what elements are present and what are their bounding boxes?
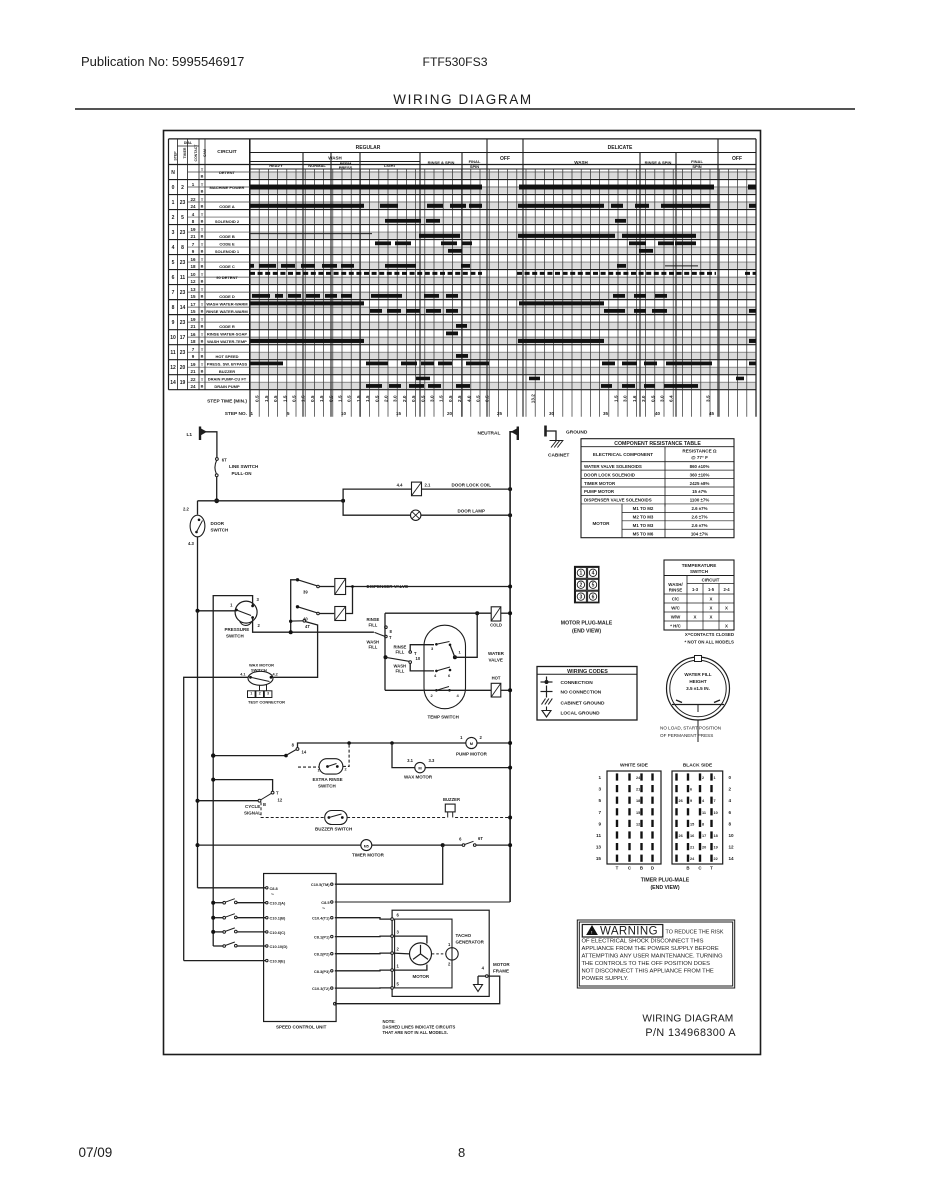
svg-text:8: 8 [292,743,295,748]
svg-text:0: 0 [729,775,732,780]
svg-text:DASHED LINES INDICATE CIRCUITS: DASHED LINES INDICATE CIRCUITS [383,1025,456,1030]
svg-text:19: 19 [190,317,196,322]
svg-text:DIAL: DIAL [184,141,193,145]
svg-text:VALVE: VALVE [489,658,503,663]
svg-text:14: 14 [729,856,735,861]
svg-text:(END VIEW): (END VIEW) [650,885,679,891]
svg-text:B: B [201,325,204,329]
svg-text:1.5: 1.5 [614,395,619,402]
svg-text:24: 24 [690,857,695,861]
svg-text:20: 20 [180,365,186,371]
svg-text:22: 22 [190,197,196,202]
svg-text:WAX MOTOR: WAX MOTOR [404,775,433,780]
svg-text:T: T [201,318,204,322]
svg-text:3: 3 [580,595,583,601]
svg-text:WHITE SIDE: WHITE SIDE [620,763,649,769]
svg-text:X=CONTACTS CLOSED: X=CONTACTS CLOSED [685,632,734,637]
svg-text:WASH/: WASH/ [668,582,683,587]
svg-text:17: 17 [190,302,196,307]
svg-text:23: 23 [180,290,186,296]
svg-text:PUMP MOTOR: PUMP MOTOR [584,489,615,494]
svg-text:T: T [201,198,204,202]
svg-text:T: T [616,866,619,871]
svg-text:TIMER: TIMER [183,147,187,158]
svg-text:16: 16 [190,332,196,337]
svg-text:C10.9(E): C10.9(E) [270,959,286,964]
svg-text:NORMAL: NORMAL [308,163,326,168]
svg-text:CONNECTION: CONNECTION [561,680,594,686]
svg-text:L1: L1 [187,432,193,438]
svg-text:15: 15 [636,811,640,815]
svg-text:4: 4 [172,245,175,251]
svg-text:0.5: 0.5 [273,395,278,402]
svg-text:3.5: 3.5 [706,395,711,402]
svg-text:TIMER MOTOR: TIMER MOTOR [584,481,616,486]
svg-text:T: T [276,791,279,796]
svg-text:07/09: 07/09 [79,1145,113,1160]
svg-text:WIRING CODES: WIRING CODES [567,669,608,675]
svg-text:BUZZER: BUZZER [443,797,460,802]
svg-text:WATER FILL: WATER FILL [684,672,711,677]
svg-text:39: 39 [303,590,308,595]
svg-text:OF ELECTRICAL SHOCK DISCONNECT: OF ELECTRICAL SHOCK DISCONNECT THIS [582,939,704,945]
svg-text:16: 16 [190,257,196,262]
svg-text:4T: 4T [305,624,310,629]
svg-text:W/W: W/W [671,615,681,620]
svg-text:23: 23 [180,350,186,356]
svg-text:15: 15 [190,294,196,299]
svg-text:B: B [263,802,266,807]
svg-text:1: 1 [250,692,252,696]
svg-text:7: 7 [172,290,175,296]
svg-text:REGULAR: REGULAR [356,145,381,151]
svg-text:1.5: 1.5 [264,395,269,402]
svg-text:P/N 134968300 A: P/N 134968300 A [645,1027,736,1039]
svg-text:14: 14 [170,380,176,386]
svg-text:DETENT: DETENT [219,170,236,175]
svg-text:M5: M5 [364,844,369,848]
svg-text:4: 4 [457,693,460,698]
svg-text:1: 1 [192,182,195,187]
svg-text:14: 14 [180,305,186,311]
svg-text:7: 7 [714,799,716,803]
svg-text:POWER SUPPLY.: POWER SUPPLY. [582,976,629,982]
svg-text:B: B [201,370,204,374]
svg-text:FILL: FILL [396,669,405,674]
svg-text:2.6 ±7%: 2.6 ±7% [691,515,707,520]
svg-text:(END VIEW): (END VIEW) [572,629,601,635]
svg-text:12: 12 [170,365,176,371]
svg-text:19: 19 [180,380,186,386]
svg-text:RINSE: RINSE [669,588,682,593]
svg-text:24: 24 [190,204,196,209]
svg-text:11: 11 [596,833,601,838]
svg-text:2: 2 [172,215,175,221]
svg-text:10: 10 [729,833,735,838]
svg-text:C: C [628,866,632,871]
svg-text:9: 9 [598,821,601,826]
svg-text:BLACK SIDE: BLACK SIDE [683,763,713,769]
svg-text:C10.4(T1): C10.4(T1) [312,916,330,921]
svg-text:2425 ±8%: 2425 ±8% [690,481,710,486]
svg-text:13: 13 [596,845,602,850]
svg-text:SWITCH: SWITCH [226,634,244,639]
svg-text:19: 19 [190,362,196,367]
svg-text:3: 3 [172,230,175,236]
svg-text:6: 6 [690,788,692,792]
svg-text:7: 7 [598,810,601,815]
svg-text:2.5: 2.5 [457,395,462,402]
svg-text:CODE R: CODE R [219,324,235,329]
svg-text:@ 77° F: @ 77° F [691,455,708,460]
svg-text:BUZZER: BUZZER [219,369,235,374]
svg-text:0.5: 0.5 [292,395,297,402]
svg-text:SPEED CONTROL UNIT: SPEED CONTROL UNIT [276,1025,327,1030]
svg-text:PRESSURE: PRESSURE [225,627,250,632]
svg-text:5: 5 [592,583,595,589]
svg-text:WASH WATER-TEMP: WASH WATER-TEMP [207,339,247,344]
svg-text:4.4: 4.4 [397,483,403,488]
svg-text:1: 1 [714,776,716,780]
svg-text:OFF: OFF [732,156,742,162]
svg-text:C10.10(D): C10.10(D) [270,944,289,949]
svg-text:3: 3 [598,787,601,792]
svg-text:MOTOR: MOTOR [592,521,610,526]
svg-text:B: B [686,866,689,871]
svg-text:1: 1 [397,964,400,969]
svg-text:0.5: 0.5 [255,395,260,402]
svg-text:B: B [201,175,204,179]
svg-text:3.0: 3.0 [430,395,435,402]
svg-text:45: 45 [709,411,715,416]
svg-text:M2 TO M3: M2 TO M3 [633,515,654,520]
svg-text:ELECTRICAL COMPONENT: ELECTRICAL COMPONENT [593,452,653,457]
svg-text:10: 10 [190,272,196,277]
svg-text:MOTOR: MOTOR [413,974,430,979]
svg-text:DOOR: DOOR [211,521,225,526]
svg-text:C10.1(B): C10.1(B) [270,916,286,921]
svg-text:4.3: 4.3 [188,541,194,546]
svg-text:4.1: 4.1 [240,673,245,677]
svg-text:B: B [201,265,204,269]
svg-text:13: 13 [190,287,196,292]
svg-text:8: 8 [729,821,732,826]
svg-text:10: 10 [341,411,347,416]
svg-text:18: 18 [190,264,196,269]
svg-text:4.0: 4.0 [466,395,471,402]
svg-text:B: B [201,280,204,284]
svg-text:12: 12 [190,279,196,284]
svg-text:1: 1 [580,571,583,577]
svg-text:WIRING DIAGRAM: WIRING DIAGRAM [393,92,532,107]
svg-text:3: 3 [267,692,269,696]
svg-text:HOT: HOT [492,676,501,681]
svg-text:0.5: 0.5 [485,395,490,402]
svg-text:2: 2 [345,768,347,772]
svg-text:NOTE:: NOTE: [383,1019,396,1024]
svg-text:T: T [201,168,204,172]
svg-text:26: 26 [679,799,683,803]
svg-text:* H/C: * H/C [670,624,681,629]
svg-text:2.0: 2.0 [402,395,407,402]
svg-text:2: 2 [181,185,184,191]
svg-text:26: 26 [679,834,683,838]
svg-text:X: X [710,615,713,620]
svg-text:0.5: 0.5 [476,395,481,402]
svg-text:2: 2 [480,735,483,740]
svg-text:NOT DISCONNECT THIS APPLIANCE: NOT DISCONNECT THIS APPLIANCE FROM THE [582,968,714,974]
svg-text:0.5: 0.5 [411,395,416,402]
svg-text:0.5: 0.5 [347,395,352,402]
svg-text:1: 1 [230,603,233,608]
svg-text:15: 15 [596,856,602,861]
svg-text:OF PERMANENT PRESS: OF PERMANENT PRESS [660,733,713,738]
svg-text:19: 19 [190,227,196,232]
svg-text:NO LOAD, START POSITION: NO LOAD, START POSITION [660,726,721,731]
svg-text:1.5: 1.5 [439,395,444,402]
svg-text:15: 15 [190,309,196,314]
svg-text:CIRCUIT: CIRCUIT [702,578,720,583]
svg-text:10: 10 [170,335,176,341]
svg-text:CODE E: CODE E [219,241,235,246]
svg-text:BUZZER SWITCH: BUZZER SWITCH [315,827,352,832]
svg-text:3.0: 3.0 [623,395,628,402]
svg-text:21: 21 [636,788,640,792]
svg-text:B: B [201,205,204,209]
svg-text:8: 8 [390,629,393,634]
svg-text:X: X [694,615,697,620]
svg-text:COLD: COLD [490,623,502,628]
svg-text:4: 4 [592,571,595,577]
svg-text:B: B [201,295,204,299]
svg-text:23: 23 [180,200,186,206]
svg-text:NO CONNECTION: NO CONNECTION [561,690,602,696]
svg-text:23: 23 [180,260,186,266]
svg-text:3.1: 3.1 [407,758,413,763]
svg-text:0.5: 0.5 [420,395,425,402]
svg-text:TIMER PLUG-MALE: TIMER PLUG-MALE [641,878,690,884]
svg-text:360 ±10%: 360 ±10% [690,472,710,477]
svg-text:1: 1 [460,735,463,740]
svg-text:T: T [201,243,204,247]
svg-text:N: N [171,170,175,176]
svg-text:21: 21 [190,324,196,329]
svg-text:25: 25 [497,411,503,416]
svg-text:EXTRA RINSE: EXTRA RINSE [313,777,343,782]
svg-text:12: 12 [636,822,640,826]
svg-text:0.5: 0.5 [374,395,379,402]
svg-text:10: 10 [714,811,718,815]
svg-text:B: B [640,866,643,871]
svg-text:35: 35 [603,411,609,416]
svg-text:W/C: W/C [671,606,680,611]
svg-text:22: 22 [714,857,718,861]
svg-text:3: 3 [257,597,260,602]
svg-text:C10.2(A): C10.2(A) [270,901,286,906]
svg-text:2: 2 [259,692,261,696]
svg-text:8: 8 [172,305,175,311]
svg-text:2: 2 [702,776,704,780]
svg-text:RESISTANCE Ω: RESISTANCE Ω [682,449,717,454]
svg-text:4: 4 [192,212,195,217]
svg-text:SOLENOID 2: SOLENOID 2 [215,219,240,224]
svg-text:1.5: 1.5 [301,395,306,402]
svg-text:22: 22 [190,377,196,382]
svg-text:M1 TO M2: M1 TO M2 [633,506,654,511]
svg-text:8: 8 [181,245,184,251]
svg-text:1.5: 1.5 [356,395,361,402]
svg-text:SWITCH: SWITCH [690,569,709,574]
svg-text:5: 5 [598,798,601,803]
svg-text:6: 6 [448,673,451,678]
svg-text:CODE B: CODE B [219,234,235,239]
svg-text:M1 TO M3: M1 TO M3 [633,523,654,528]
svg-text:3.0: 3.0 [393,395,398,402]
svg-text:Publication No: 5995546917: Publication No: 5995546917 [81,54,244,69]
svg-text:2-4: 2-4 [723,587,730,592]
svg-text:21: 21 [690,846,694,850]
svg-text:T: T [201,228,204,232]
svg-text:FRAME: FRAME [493,969,509,974]
svg-text:6: 6 [459,837,462,842]
svg-text:STEP TIME (MIN.): STEP TIME (MIN.) [207,399,247,405]
svg-text:FILL: FILL [369,623,378,628]
svg-text:1-3: 1-3 [692,587,699,592]
svg-text:B: B [201,310,204,314]
svg-text:16: 16 [690,834,694,838]
svg-text:3.3: 3.3 [429,758,435,763]
svg-text:FILL: FILL [369,645,378,650]
svg-text:CIRCUIT: CIRCUIT [217,149,237,155]
svg-text:C10.3(T2): C10.3(T2) [312,986,330,991]
svg-text:WASH: WASH [328,156,342,161]
svg-text:X: X [725,624,728,629]
svg-text:11: 11 [180,275,186,281]
svg-text:3.0: 3.0 [660,395,665,402]
svg-text:1: 1 [251,411,254,416]
svg-text:WATER: WATER [488,651,505,656]
svg-text:NEUTRAL: NEUTRAL [478,431,501,437]
svg-text:2: 2 [448,962,451,967]
svg-text:3.5 ±1.5 IN.: 3.5 ±1.5 IN. [686,686,710,691]
svg-text:860 ±10%: 860 ±10% [690,464,710,469]
svg-text:B: B [201,235,204,239]
svg-text:23: 23 [180,230,186,236]
svg-text:9: 9 [172,320,175,326]
svg-text:CABINET: CABINET [548,453,569,459]
svg-text:9: 9 [192,354,195,359]
svg-text:SWITCH: SWITCH [318,784,336,789]
svg-text:M5 TO M6: M5 TO M6 [633,531,654,536]
svg-text:1100 ±7%: 1100 ±7% [690,498,710,503]
svg-text:THE CONTROLS TO THE OFF POSITI: THE CONTROLS TO THE OFF POSITION DOES [582,961,711,967]
svg-text:TO REDUCE THE RISK: TO REDUCE THE RISK [666,930,724,936]
svg-text:1-5: 1-5 [708,587,715,592]
svg-text:B: B [201,340,204,344]
svg-text:X: X [725,606,728,611]
svg-text:2: 2 [258,623,261,628]
svg-text:CODE D: CODE D [219,294,235,299]
svg-text:7: 7 [192,242,195,247]
svg-text:20: 20 [702,846,706,850]
svg-text:TEST CONNECTOR: TEST CONNECTOR [248,700,285,705]
svg-text:* NOT ON ALL MODELS: * NOT ON ALL MODELS [684,640,734,645]
svg-text:OFF: OFF [500,156,510,162]
svg-text:15: 15 [690,822,694,826]
svg-text:B: B [201,385,204,389]
svg-text:WARNING: WARNING [600,926,658,938]
svg-text:5: 5 [172,260,175,266]
svg-text:PRESS: PRESS [339,165,353,170]
svg-text:CABINET GROUND: CABINET GROUND [561,701,606,707]
svg-text:LINE SWITCH: LINE SWITCH [229,464,258,469]
svg-text:1.5: 1.5 [338,395,343,402]
svg-text:WIRING DIAGRAM: WIRING DIAGRAM [642,1014,733,1025]
svg-text:20: 20 [447,411,453,416]
svg-text:T: T [201,348,204,352]
svg-text:1: 1 [459,650,462,655]
svg-text:1.6: 1.6 [632,395,637,402]
svg-text:T: T [201,288,204,292]
svg-text:5: 5 [181,215,184,221]
svg-text:12: 12 [278,798,283,803]
svg-text:12: 12 [729,845,735,850]
svg-text:2.6 ±7%: 2.6 ±7% [691,506,707,511]
svg-text:~: ~ [271,892,274,898]
svg-text:DISPENSER VALVE SOLENOIDS: DISPENSER VALVE SOLENOIDS [584,498,652,503]
svg-text:14: 14 [302,750,307,755]
svg-text:11: 11 [702,811,706,815]
svg-text:1.5: 1.5 [319,395,324,402]
svg-text:X: X [710,606,713,611]
svg-text:B: B [201,250,204,254]
svg-text:D: D [651,866,654,871]
svg-text:TIMER MOTOR: TIMER MOTOR [352,853,385,858]
svg-text:WASH WATER-WARM: WASH WATER-WARM [206,301,248,306]
svg-text:T: T [201,363,204,367]
svg-text:TEMPERATURE: TEMPERATURE [682,563,717,568]
svg-text:104 ±7%: 104 ±7% [691,531,708,536]
svg-text:T: T [710,866,713,871]
svg-text:STEP: STEP [174,151,178,161]
svg-text:3: 3 [397,930,400,935]
svg-text:19: 19 [714,846,718,850]
svg-text:DRAIN PUMP-CU FT: DRAIN PUMP-CU FT [208,376,247,381]
svg-text:DOOR LAMP: DOOR LAMP [458,509,486,514]
svg-text:8: 8 [458,1145,465,1160]
svg-text:~: ~ [322,906,325,912]
svg-text:LIGHT: LIGHT [384,163,397,168]
svg-text:TEMP SWITCH: TEMP SWITCH [428,715,459,720]
svg-text:B: B [201,190,204,194]
svg-text:6T: 6T [222,458,227,463]
svg-text:DELICATE: DELICATE [608,145,633,151]
svg-text:B: B [201,355,204,359]
svg-text:HEAVY: HEAVY [269,163,283,168]
svg-text:7: 7 [192,347,195,352]
svg-text:6: 6 [397,913,400,918]
svg-text:23: 23 [180,320,186,326]
svg-text:90 DETENT: 90 DETENT [216,275,238,280]
svg-text:2.0: 2.0 [384,395,389,402]
svg-text:8: 8 [192,219,195,224]
svg-text:T: T [201,378,204,382]
svg-text:C10.5(TM): C10.5(TM) [311,882,330,887]
svg-text:CODE C: CODE C [219,264,235,269]
svg-text:6: 6 [729,810,732,815]
svg-text:40: 40 [655,411,661,416]
svg-text:T: T [201,333,204,337]
